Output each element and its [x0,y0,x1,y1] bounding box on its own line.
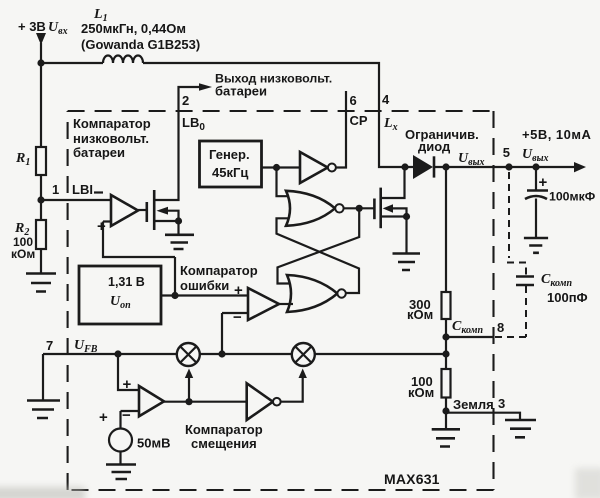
svg-text:7: 7 [46,338,53,353]
svg-text:1,31 В: 1,31 В [108,275,145,289]
svg-text:1: 1 [52,182,59,197]
svg-text:ошибки: ошибки [180,278,229,293]
svg-text:+: + [234,282,243,299]
svg-text:−: − [233,309,242,326]
svg-text:Компаратор: Компаратор [73,116,151,131]
svg-text:100мкФ: 100мкФ [549,190,596,204]
svg-text:CP: CP [350,113,368,128]
svg-text:кОм: кОм [11,247,35,261]
svg-text:8: 8 [497,320,504,335]
svg-text:(Gowanda G1B253): (Gowanda G1B253) [81,37,200,52]
svg-text:Генер.: Генер. [209,147,250,162]
svg-text:LBI: LBI [72,182,93,197]
svg-text:MAX631: MAX631 [384,471,440,487]
svg-text:4: 4 [382,92,390,107]
svg-text:батареи: батареи [73,145,125,160]
svg-text:низковольт.: низковольт. [73,131,149,146]
svg-text:кОм: кОм [408,385,434,400]
svg-text:+: + [99,409,108,426]
svg-text:батареи: батареи [215,84,267,99]
svg-text:−: − [122,407,131,424]
svg-text:диод: диод [418,139,451,154]
svg-text:2: 2 [182,93,189,108]
svg-text:Компаратор: Компаратор [185,422,263,437]
svg-text:100пФ: 100пФ [547,290,588,305]
svg-text:+5В, 10мА: +5В, 10мА [522,127,592,142]
svg-text:кОм: кОм [407,307,433,322]
svg-text:смещения: смещения [191,436,257,451]
svg-text:250мкГн, 0,44Ом: 250мкГн, 0,44Ом [81,21,186,36]
svg-text:+ 3В: + 3В [18,19,46,34]
svg-text:45кГц: 45кГц [212,165,248,180]
svg-text:Земля: Земля [453,397,494,412]
svg-text:5: 5 [503,145,510,160]
svg-text:6: 6 [350,93,357,108]
svg-text:Компаратор: Компаратор [180,263,258,278]
svg-text:+: + [123,376,132,393]
svg-text:+: + [539,174,548,191]
svg-text:+: + [97,218,106,235]
svg-text:50мВ: 50мВ [137,436,170,451]
svg-text:3: 3 [498,396,505,411]
